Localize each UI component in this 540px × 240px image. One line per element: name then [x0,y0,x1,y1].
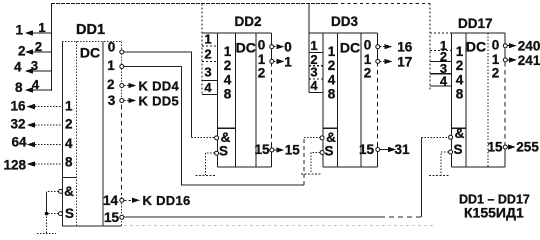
svg-text:1: 1 [224,44,232,59]
pin 15 circle [120,215,124,219]
svg-text:DD1: DD1 [76,22,105,38]
svg-text:17: 17 [397,54,412,69]
decoder DD3 [309,14,380,167]
pin 0 circle [503,44,507,48]
svg-text:2: 2 [65,116,73,131]
pin 15 circle [376,148,380,152]
decoder DD2 [202,14,274,167]
svg-text:1: 1 [38,20,45,35]
svg-text:DC: DC [466,39,486,55]
svg-text:4: 4 [224,72,232,87]
svg-text:4: 4 [328,72,336,87]
svg-text:8: 8 [328,86,336,101]
svg-text:1: 1 [284,54,292,69]
wire: top dashed bus line [51,3,335,5]
wire: DD1 pin2 -> K DD4 [124,85,129,87]
decoder DD1 [59,22,124,226]
svg-text:DD2: DD2 [235,14,262,29]
wire: DD1 pin1 -> DD3 & [124,67,320,186]
arrowheads of left inputs [25,30,36,167]
svg-text:1: 1 [456,44,464,59]
wire: input line 1 to arrow "1" [27,32,52,34]
svg-text:S: S [453,142,462,157]
svg-text:2: 2 [224,58,232,73]
svg-text:2: 2 [204,47,211,62]
wire: DD3 output 0 [380,46,386,48]
junction dot [45,212,49,216]
svg-text:14: 14 [103,193,119,208]
svg-text:4: 4 [65,136,73,151]
& inversion circle [215,136,219,140]
wire: bus vertical drop to DD3 cells [308,4,310,93]
wire: DD2 output 0 [274,46,279,48]
svg-text:255: 255 [516,139,539,154]
pin 0 circle [376,45,380,49]
S inversion circle [215,151,219,155]
svg-text:15: 15 [285,142,301,157]
svg-text:4: 4 [310,78,318,93]
wire: bus vertical drop to DD17 cells [429,4,431,91]
wire: DD1 pin14 -> K DD16 [124,199,132,201]
svg-text:K DD5: K DD5 [139,93,180,108]
svg-text:31: 31 [395,142,411,157]
cells 1-4 of DD3 [309,33,323,93]
pin 1 circle [376,59,380,63]
svg-text:&: & [64,184,74,199]
svg-text:0: 0 [258,37,266,52]
svg-text:32: 32 [10,116,25,131]
svg-text:&: & [221,130,231,145]
svg-text:64: 64 [11,134,27,149]
svg-text:15: 15 [359,142,375,157]
wire: DD1 pin15 -> DD17 & [124,137,449,217]
svg-text:DC: DC [236,40,256,56]
svg-text:DC: DC [340,40,360,56]
wire: DD17 output 1 [507,59,509,61]
svg-text:0: 0 [284,40,292,55]
wire: address input 16 (dotted) [29,106,62,108]
svg-text:S: S [65,206,74,221]
pin 0 circle [120,50,124,54]
svg-text:&: & [455,126,465,141]
& inversion circle [59,189,63,193]
svg-text:4: 4 [32,77,40,92]
svg-text:4: 4 [14,60,22,75]
svg-text:16: 16 [10,98,26,113]
svg-text:0: 0 [364,37,372,52]
svg-text:4: 4 [204,80,212,95]
wire: DD1 &/S common drop [37,191,59,233]
wire: input line 2 to arrow "2" [27,51,52,53]
svg-text:3: 3 [204,65,211,80]
S inversion circle [59,212,63,216]
svg-text:3: 3 [108,93,116,108]
pin 15 circle [503,145,507,149]
faint dashed rule under DD1 [124,224,433,226]
wire: DD1 pin0 -> DD2 & [124,52,215,138]
wire: input line 3 to arrow "4" [27,70,52,72]
svg-text:DD3: DD3 [331,14,358,29]
wire: DD17 S tail [429,152,450,176]
pin 3 circle [120,99,124,103]
wire: DD2 output 1 [274,60,279,62]
pin 14 circle [120,198,124,202]
svg-text:1: 1 [15,23,23,38]
wire: bus vertical drop to DD1 inputs [51,4,53,92]
S inversion circle [449,150,453,154]
svg-text:0: 0 [492,37,500,52]
svg-text:4: 4 [440,74,448,89]
svg-text:4: 4 [456,72,464,87]
svg-text:S: S [324,144,333,159]
svg-text:8: 8 [224,86,232,101]
svg-text:8: 8 [65,154,73,169]
wire: DD17 output 15 [507,146,508,148]
svg-text:16: 16 [397,40,413,55]
wire: DD17 output 0 [507,45,509,47]
svg-text:DD17: DD17 [458,16,493,31]
pin 0 circle [270,45,274,49]
svg-text:2: 2 [35,39,42,54]
wire: address input 64 (dotted) [29,144,62,146]
svg-text:1: 1 [328,44,336,59]
svg-text:S: S [219,144,228,159]
svg-text:K DD4: K DD4 [139,78,180,93]
cells 1-4 of DD17 [430,33,452,86]
wire: bus vertical drop to DD2 cells [201,4,203,95]
svg-text:2: 2 [107,77,115,92]
pin 15 circle [270,148,274,152]
svg-text:DC: DC [80,45,100,61]
wire: DD1 pin3 -> K DD5 [124,100,129,102]
S inversion circle [320,151,324,155]
svg-text:2: 2 [18,43,26,58]
wire: DD2 output 15 [274,149,278,151]
svg-text:3: 3 [31,58,38,73]
node labels: input values [3,23,27,173]
svg-text:241: 241 [518,53,540,68]
svg-text:8: 8 [15,80,23,95]
decoder DD17 [430,16,507,167]
svg-text:1: 1 [65,98,73,113]
& inversion circle [320,136,324,140]
svg-text:240: 240 [518,39,540,54]
wire: address input 128 (dotted) [29,163,62,165]
pin 1 circle [503,58,507,62]
svg-text:128: 128 [3,158,26,173]
svg-text:1: 1 [107,58,115,73]
& inversion circle [449,135,453,139]
svg-text:15: 15 [487,139,503,154]
pin 1 circle [270,59,274,63]
wire: address input 32 (dotted) [29,124,62,126]
pin 1 circle [120,65,124,69]
wire: input line 4 to arrow "8" [27,89,52,91]
svg-text:K DD16: K DD16 [143,193,191,208]
cells 1-4 of DD2 [202,33,218,95]
svg-text:15: 15 [254,142,270,157]
svg-text:2: 2 [492,65,500,80]
svg-text:2: 2 [328,58,336,73]
svg-text:1: 1 [310,38,317,53]
pin 2 circle [120,84,124,88]
wire: DD3 output 15 [380,149,388,151]
svg-text:8: 8 [456,86,464,101]
wire: DD2 S tail [196,153,217,175]
svg-text:2: 2 [364,65,372,80]
wire: DD3 output 1 [380,60,386,62]
svg-text:1: 1 [204,32,211,47]
svg-text:&: & [326,130,336,145]
svg-text:15: 15 [104,210,120,225]
wire: DD3 S tail [301,153,322,175]
svg-text:0: 0 [108,40,116,55]
svg-text:2: 2 [258,65,266,80]
svg-text:2: 2 [456,58,464,73]
svg-text:К155ИД1: К155ИД1 [464,205,524,221]
node labels: wire numbers 1-4 [31,20,46,92]
